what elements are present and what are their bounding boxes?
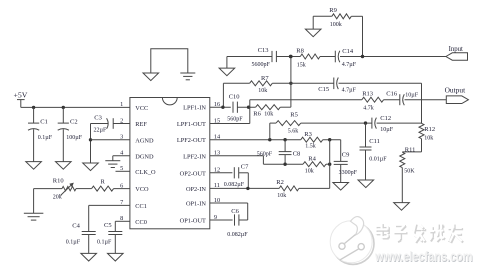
resistor R7 10k xyxy=(223,82,249,84)
node C7-R2 xyxy=(246,187,249,190)
wire pin 3 AGND xyxy=(91,139,130,141)
wire pin 13 LPF2-IN xyxy=(210,155,264,157)
node R5-C12-C11 xyxy=(364,121,367,124)
capacitor C9 3300pF xyxy=(340,140,342,162)
wire pin 10 OP1-IN xyxy=(210,202,248,204)
svg-text:CLK_O: CLK_O xyxy=(135,169,156,176)
wire pin 9 OP1-OUT xyxy=(210,219,233,221)
svg-text:R13: R13 xyxy=(362,90,373,97)
port Output xyxy=(446,96,468,104)
resistor R13 4.7k xyxy=(362,97,384,102)
svg-text:100k: 100k xyxy=(330,22,342,28)
svg-text:R5: R5 xyxy=(290,112,298,119)
capacitor C5 0.1uF xyxy=(108,231,122,233)
svg-text:1.5k: 1.5k xyxy=(305,144,316,150)
wire pin 4 DGND xyxy=(113,155,130,157)
capacitor C8 560pF xyxy=(284,140,286,152)
svg-text:OP1-OUT: OP1-OUT xyxy=(180,218,206,225)
svg-text:20k: 20k xyxy=(53,194,62,200)
ground R11 xyxy=(394,203,410,211)
wire R12 to R11 xyxy=(402,151,421,153)
node AGND junction xyxy=(89,138,92,141)
wire C3 to AGND net xyxy=(90,124,92,164)
ground C2 xyxy=(56,162,72,170)
node C10-R6 xyxy=(247,106,250,109)
node R7-C15 xyxy=(289,82,292,85)
resistor R6 10k xyxy=(256,105,281,110)
node junction C1 xyxy=(32,106,35,109)
resistor R11 50K xyxy=(400,152,405,167)
svg-text:C6: C6 xyxy=(231,208,239,215)
wire pin16 to R7 xyxy=(222,83,224,107)
svg-text:10µF: 10µF xyxy=(380,127,393,133)
svg-text:5.6k: 5.6k xyxy=(288,128,299,134)
ground C1 xyxy=(26,162,42,170)
watermark elecfans logo xyxy=(330,217,473,265)
svg-text:3: 3 xyxy=(120,134,123,141)
node R5 tap xyxy=(268,138,271,141)
wire to output chain xyxy=(250,99,362,101)
wire C15 down to R12 xyxy=(421,83,423,123)
svg-text:R: R xyxy=(101,178,106,185)
svg-text:0.1µF: 0.1µF xyxy=(66,239,81,245)
resistor R5 5.6k xyxy=(269,123,271,140)
capacitor C13 5600pF xyxy=(227,56,272,58)
svg-text:50K: 50K xyxy=(404,168,415,174)
svg-text:C11: C11 xyxy=(369,138,380,145)
svg-text:C15: C15 xyxy=(318,86,329,93)
svg-text:C16: C16 xyxy=(386,91,398,98)
svg-text:2: 2 xyxy=(120,117,123,124)
capacitor C2 xyxy=(62,107,64,123)
ground C4 xyxy=(81,253,97,261)
resistor R8 15k xyxy=(276,56,300,58)
svg-text:R2: R2 xyxy=(276,179,284,186)
svg-text:R4: R4 xyxy=(308,155,316,162)
earth ground tie xyxy=(180,72,195,74)
svg-text:R11: R11 xyxy=(405,146,416,153)
capacitor C6 0.082uF xyxy=(234,214,236,225)
svg-text:OP2-OUT: OP2-OUT xyxy=(180,170,206,177)
svg-text:560pF: 560pF xyxy=(257,151,273,157)
svg-text:0.1µF: 0.1µF xyxy=(97,239,112,245)
svg-text:CC0: CC0 xyxy=(135,219,147,226)
resistor R3 1.5k xyxy=(301,137,323,142)
svg-text:10k: 10k xyxy=(424,135,433,141)
wire summing node vertical xyxy=(290,57,292,108)
capacitor C10 560pF xyxy=(232,102,234,113)
capacitor C12 10uF xyxy=(371,118,373,129)
svg-text:AGND: AGND xyxy=(135,137,154,144)
svg-text:C8: C8 xyxy=(293,150,301,157)
wire pin 16 LPF1-IN xyxy=(210,106,231,108)
ground C5 xyxy=(108,253,124,261)
ground C11 xyxy=(358,180,374,188)
svg-text:C10: C10 xyxy=(229,93,240,100)
node C8 bottom xyxy=(283,163,286,166)
node junction C2 xyxy=(62,106,65,109)
svg-text:4.7k: 4.7k xyxy=(363,105,374,111)
svg-text:C5: C5 xyxy=(104,222,112,229)
ground AGND xyxy=(83,163,99,171)
resistor R9 100k xyxy=(312,16,314,29)
svg-text:0.1µF: 0.1µF xyxy=(38,135,53,141)
capacitor C16 10uF xyxy=(399,94,401,105)
wire +5V rail to pin 1 VCC xyxy=(21,106,130,108)
svg-text:R12: R12 xyxy=(424,126,435,133)
earth ground DGND xyxy=(105,160,120,162)
resistor R2 10k xyxy=(279,186,299,191)
svg-text:22µF: 22µF xyxy=(94,127,107,133)
svg-text:R10: R10 xyxy=(53,178,64,185)
wire ground tie bracket xyxy=(151,49,188,73)
capacitor C4 0.1uF xyxy=(82,231,96,233)
svg-text:C1: C1 xyxy=(40,118,48,125)
node C13-R8 xyxy=(289,55,292,58)
wire feedback vertical xyxy=(329,140,331,189)
resistor R12 10k xyxy=(419,123,424,138)
wire pin 8 CC0 to C5 xyxy=(115,220,130,222)
svg-text:8: 8 xyxy=(120,215,123,222)
node on input line xyxy=(289,55,292,58)
svg-text:REF: REF xyxy=(135,121,147,128)
ground C13 xyxy=(226,57,228,69)
resistor R4 10k xyxy=(303,162,326,167)
capacitor C14 4.7uF xyxy=(334,51,336,63)
wire pin 7 CC1 to C4 xyxy=(89,204,130,206)
svg-text:560pF: 560pF xyxy=(227,116,243,122)
potentiometer R10 20k xyxy=(62,186,76,190)
svg-text:6: 6 xyxy=(120,182,123,189)
svg-text:VCC: VCC xyxy=(135,105,148,112)
svg-text:4.7µF: 4.7µF xyxy=(342,62,357,68)
node pin16 xyxy=(221,106,224,109)
svg-text:10k: 10k xyxy=(277,193,286,199)
svg-text:1: 1 xyxy=(120,101,123,108)
svg-text:C9: C9 xyxy=(342,151,350,158)
svg-text:10k: 10k xyxy=(264,111,273,117)
svg-text:10k: 10k xyxy=(305,168,314,174)
svg-text:C3: C3 xyxy=(94,114,102,121)
capacitor C15 4.7uF xyxy=(291,82,334,84)
svg-text:15k: 15k xyxy=(297,63,306,69)
node R3-R4 vertical xyxy=(328,138,331,141)
node C8 top xyxy=(283,138,286,141)
svg-text:R8: R8 xyxy=(296,47,304,54)
svg-text:LPF1-OUT: LPF1-OUT xyxy=(177,121,206,128)
svg-text:C12: C12 xyxy=(380,115,391,122)
svg-text:C14: C14 xyxy=(342,48,354,55)
svg-text:OP2-IN: OP2-IN xyxy=(186,186,206,193)
ground C9 xyxy=(333,183,349,191)
svg-text:10k: 10k xyxy=(258,88,267,94)
svg-text:R3: R3 xyxy=(304,131,312,138)
capacitor C11 0.01uF xyxy=(365,123,367,147)
svg-text:C13: C13 xyxy=(258,47,269,54)
svg-text:10µF: 10µF xyxy=(405,92,418,98)
svg-text:0.082µF: 0.082µF xyxy=(224,182,245,188)
svg-text:5600pF: 5600pF xyxy=(252,62,271,68)
ground R9 xyxy=(305,29,321,37)
svg-text:0.082µF: 0.082µF xyxy=(227,232,248,238)
wire pin 12 OP2-OUT xyxy=(210,172,233,174)
wire VCO net pin 6 xyxy=(34,188,62,190)
svg-text:OP1-IN: OP1-IN xyxy=(186,201,206,208)
wire pin 14 LPF2-OUT xyxy=(210,139,301,141)
svg-text:100µF: 100µF xyxy=(66,135,82,141)
svg-text:5: 5 xyxy=(120,165,123,172)
svg-text:R9: R9 xyxy=(329,7,337,14)
svg-text:LPF2-OUT: LPF2-OUT xyxy=(177,137,206,144)
op-amp filter IC U1 xyxy=(130,98,210,229)
ground triangle tie xyxy=(143,73,159,81)
svg-text:3300pF: 3300pF xyxy=(339,170,358,176)
svg-text:7: 7 xyxy=(120,199,123,206)
svg-text:0.01µF: 0.01µF xyxy=(369,156,387,162)
wire pin 15 LPF1-OUT xyxy=(210,123,250,125)
port Input xyxy=(446,53,468,60)
svg-text:LPF2-IN: LPF2-IN xyxy=(183,153,206,160)
capacitor C3 22uF on REF pin 2 xyxy=(113,123,130,125)
svg-text:4.7µF: 4.7µF xyxy=(342,87,357,93)
capacitor C7 0.082uF xyxy=(233,167,235,178)
svg-text:+5V: +5V xyxy=(14,91,28,100)
wire R10 to ground xyxy=(33,189,35,214)
wire pin 11 OP2-IN xyxy=(210,187,279,189)
svg-text:Input: Input xyxy=(449,46,463,53)
capacitor C1 xyxy=(33,107,35,123)
svg-text:CC1: CC1 xyxy=(135,203,147,210)
wire pin 5 CLK_O stub xyxy=(116,170,130,172)
svg-text:C2: C2 xyxy=(70,118,78,125)
svg-text:DGND: DGND xyxy=(135,153,154,160)
svg-text:www.elecfans.com: www.elecfans.com xyxy=(374,249,472,264)
node R4 right xyxy=(328,163,331,166)
svg-text:LPF1-IN: LPF1-IN xyxy=(183,105,206,112)
wire R4 line xyxy=(263,163,303,165)
earth ground R10 xyxy=(24,212,43,214)
svg-text:R6: R6 xyxy=(253,110,261,117)
svg-text:Output: Output xyxy=(445,86,466,95)
node Input-R9 xyxy=(361,55,364,58)
svg-text:C7: C7 xyxy=(241,163,249,170)
resistor R xyxy=(92,186,114,191)
svg-text:C4: C4 xyxy=(72,223,80,230)
svg-text:VCO: VCO xyxy=(135,186,149,193)
svg-text:R7: R7 xyxy=(261,75,269,82)
